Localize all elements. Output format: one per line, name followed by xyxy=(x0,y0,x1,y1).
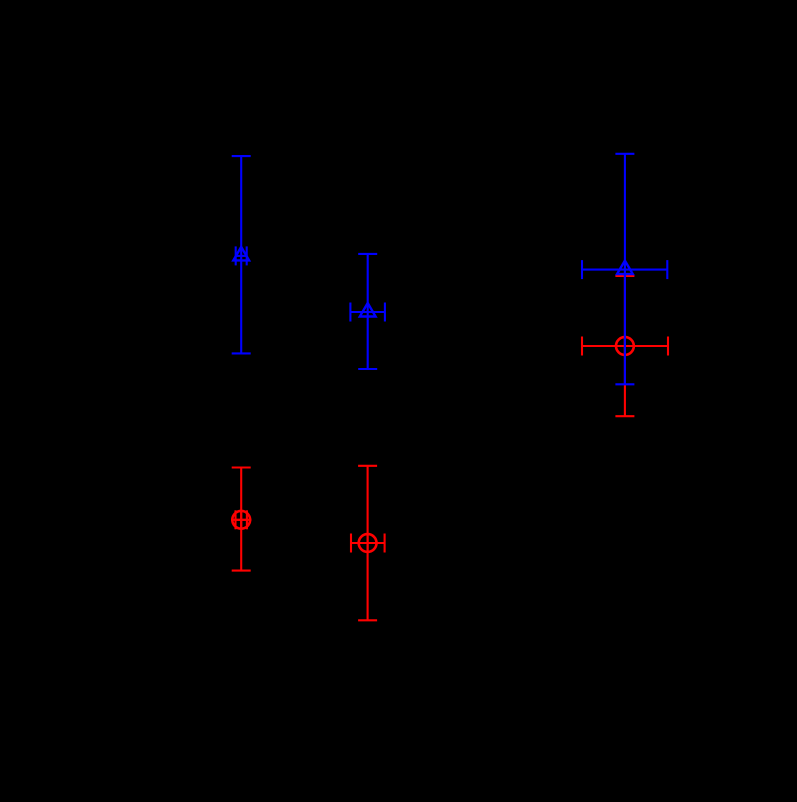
blue series 1 vertical error bar xyxy=(240,156,242,353)
red series 3 bottom cap xyxy=(615,415,634,417)
blue series 1 bottom cap xyxy=(232,352,251,354)
red series 1 group xyxy=(231,468,251,571)
blue series 3 group xyxy=(582,154,667,384)
blue series 2 horizontal error bar xyxy=(350,311,385,313)
red series 3 vertical error bar xyxy=(624,276,626,416)
blue series 2 vertical error bar xyxy=(367,254,369,369)
red series 3 horizontal error bar xyxy=(582,345,668,347)
blue series 3 left cap xyxy=(581,260,583,279)
red series 3 circle-plus marker xyxy=(616,337,634,355)
blue series 1 right cap xyxy=(246,246,248,265)
blue series 3 vertical error bar xyxy=(624,154,626,384)
red series 1 left cap xyxy=(234,510,236,529)
blue series 3 bottom cap xyxy=(615,383,634,385)
blue series 1 group xyxy=(232,156,251,353)
red series 2 circle-plus marker xyxy=(359,534,377,552)
red series 1 top cap xyxy=(232,466,251,468)
blue series 1 left cap xyxy=(235,246,237,265)
blue series 1 triangle marker xyxy=(233,247,249,261)
blue series 3 triangle marker xyxy=(617,261,633,275)
blue series 2 group xyxy=(350,254,385,369)
blue series 2 triangle marker xyxy=(360,303,376,317)
red series 1 bottom cap xyxy=(232,570,251,572)
blue series 2 top cap xyxy=(358,253,377,255)
red series 2 vertical error bar xyxy=(367,466,369,621)
red series 2 top cap xyxy=(358,465,377,467)
red series 1 circle-plus marker xyxy=(232,511,250,529)
red series 1 vertical error bar xyxy=(240,468,242,571)
blue series 1 horizontal error bar xyxy=(236,255,247,257)
blue series 3 right cap xyxy=(666,260,668,279)
red series 1 right cap xyxy=(246,510,248,529)
red series 2 left cap xyxy=(350,534,352,553)
red series 3 right cap xyxy=(667,337,669,356)
blue series 3 horizontal error bar xyxy=(582,269,667,271)
red series 3 group xyxy=(582,276,668,416)
blue series 2 bottom cap xyxy=(358,368,377,370)
red series 2 bottom cap xyxy=(358,619,377,621)
red series 2 right cap xyxy=(384,534,386,553)
red series 2 horizontal error bar xyxy=(351,542,385,544)
blue series 3 top cap xyxy=(615,153,634,155)
red series 2 group xyxy=(351,466,385,621)
blue series 1 top cap xyxy=(232,155,251,157)
red series 1 horizontal error bar xyxy=(236,519,247,521)
blue series 2 right cap xyxy=(384,303,386,322)
red series 3 left cap xyxy=(581,337,583,356)
red series 3 top cap xyxy=(615,275,634,277)
blue series 2 left cap xyxy=(349,303,351,322)
